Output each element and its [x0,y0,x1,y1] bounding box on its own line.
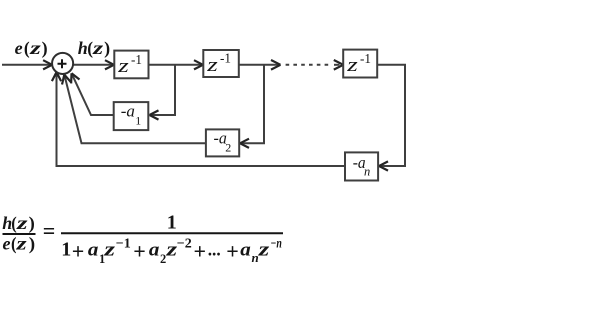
delay block Z3 [343,50,377,78]
svg-text:(: ( [24,38,30,59]
svg-text:-1: -1 [360,51,371,66]
value label -an in An [353,153,371,178]
formula: main fraction bar [61,232,283,234]
value label -a1 in A1 [121,102,142,128]
svg-text:n: n [252,250,259,265]
svg-text:-1: -1 [220,51,231,66]
wire: tap junction down to coefficient A1 [150,65,176,120]
svg-text:=: = [43,218,56,243]
svg-text:+: + [226,239,239,264]
formula: left fraction bar [3,233,36,235]
svg-text:): ) [104,38,110,59]
svg-text:): ) [29,233,35,254]
svg-text:1: 1 [167,212,177,234]
svg-text:n: n [364,164,370,178]
svg-text:...: ... [208,240,221,260]
svg-text:e: e [15,38,23,58]
formula: main numerator 1 [167,212,177,234]
delay block Z2 [203,50,239,77]
wire: dotted continuation line [286,64,340,66]
svg-text:−1: −1 [116,236,131,251]
delay block Z1 [114,51,148,79]
value label z^-1 in Z1 [117,52,142,77]
wire: tap junction down to coefficient A2 [240,65,264,148]
svg-text:z: z [103,240,116,261]
wire: An output along bottom back up into summer [52,72,344,166]
svg-text:2: 2 [160,252,166,266]
svg-text:a: a [88,240,99,261]
label e(z) input [15,38,48,59]
svg-text:1: 1 [135,114,141,128]
svg-text:): ) [42,38,48,59]
wire: A2 output diagonal into summer [60,73,206,143]
formula: equals sign [43,218,56,243]
coefficient block An [345,152,378,180]
formula: main denominator 1 + a1 z^-1 + a2 z^-2 + ... + an z^-n [61,235,282,266]
svg-text:−2: −2 [177,236,192,251]
svg-text:z: z [346,56,358,76]
formula: transfer function numerator h(z) [2,213,35,234]
svg-text:(: ( [11,213,16,234]
svg-text:+: + [133,239,146,264]
summer S1 [52,53,73,74]
svg-text:z: z [16,213,28,233]
wire: A1 output diagonal into summer [67,71,113,115]
label h(z) summer output [78,38,110,59]
svg-text:z: z [29,38,41,58]
wire: arrowhead into delay Z3 [334,60,344,70]
svg-text:): ) [29,213,35,234]
svg-text:-a: -a [121,102,135,121]
svg-text:a: a [149,240,160,261]
svg-text:−n: −n [270,235,282,250]
wire: Z2 output toward dotted section [239,60,281,70]
svg-text:-1: -1 [131,52,142,67]
svg-text:z: z [117,57,129,77]
formula: transfer function denominator e(z) [3,233,36,254]
value label z^-1 in Z2 [206,51,231,76]
svg-text:z: z [92,38,103,58]
value label z^-1 in Z3 [346,51,371,76]
svg-text:2: 2 [225,141,231,155]
svg-text:a: a [240,240,251,261]
svg-text:+: + [194,239,207,264]
wire: summer output to delay Z1 [73,60,114,69]
svg-text:z: z [206,56,218,76]
svg-text:1: 1 [61,239,71,261]
coefficient block A1 [114,102,149,130]
svg-text:z: z [15,233,26,253]
svg-text:z: z [257,240,270,261]
wire: Z3 output down to coefficient An [378,65,406,171]
wire: input signal into summer [2,60,52,69]
svg-text:+: + [72,239,85,264]
wire: Z1 output to delay Z2 [149,60,204,69]
value label -a2 in A2 [214,129,232,155]
svg-text:e: e [3,233,11,253]
coefficient block A2 [206,129,239,156]
